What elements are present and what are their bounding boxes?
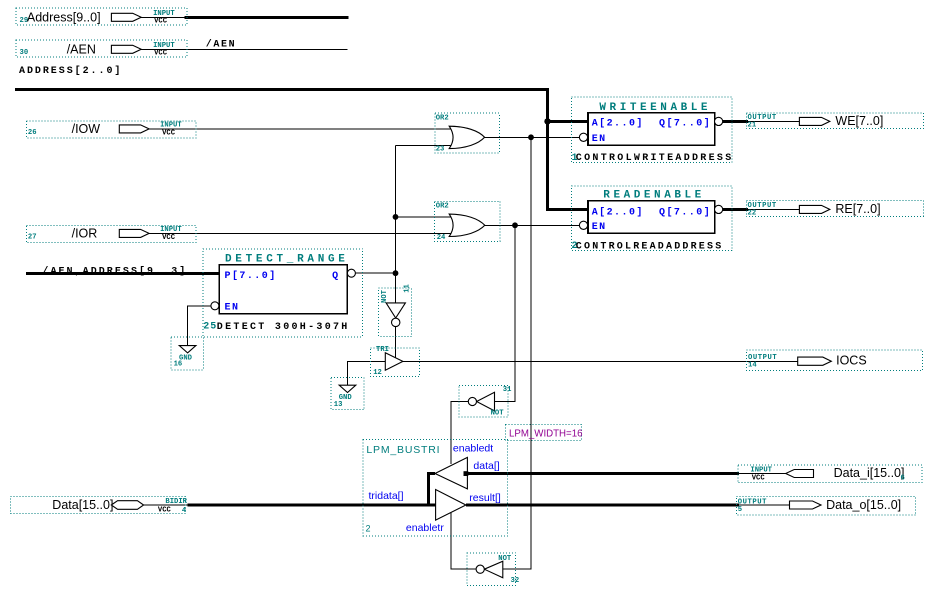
svg-text:READENABLE: READENABLE	[603, 190, 705, 202]
or-gate OR2 24	[434, 202, 500, 242]
svg-text:Data_i[15..0]: Data_i[15..0]	[834, 466, 905, 480]
svg-text:Data_o[15..0]: Data_o[15..0]	[826, 498, 901, 512]
wire WRITEENABLE Q to WE output pin	[723, 120, 800, 123]
svg-text:12: 12	[373, 369, 382, 377]
wire ADDRESS[2..0] bus	[15, 89, 588, 209]
wire LPM_BUSTRI internal bus	[429, 474, 435, 506]
svg-text:5: 5	[738, 506, 742, 514]
block LPM_BUSTRI 2	[363, 440, 507, 536]
wire data[] bus to Data_i pin	[465, 472, 786, 475]
wire TRI12 output to IOCS pin	[403, 360, 798, 362]
svg-text:EN: EN	[592, 134, 607, 145]
svg-text:data[]: data[]	[473, 460, 499, 472]
wire result[] bus to Data_o pin	[466, 504, 790, 507]
svg-text:4: 4	[182, 507, 187, 515]
wire Address[9..0] bus	[141, 16, 349, 18]
junction OR23 output	[528, 134, 534, 140]
svg-text:Q[7..0]: Q[7..0]	[659, 118, 711, 130]
svg-text:27: 27	[28, 234, 37, 242]
svg-text:23: 23	[436, 146, 445, 154]
svg-text:30: 30	[20, 49, 29, 57]
svg-text:16: 16	[174, 361, 183, 369]
svg-text:P[7..0]: P[7..0]	[225, 270, 277, 282]
wire READENABLE Q to RE output pin	[723, 208, 800, 211]
wire OR23 output to WRITEENABLE EN and down to NOT32 input	[485, 137, 580, 569]
junction Q net at OR24 branch	[393, 214, 399, 220]
svg-text:32: 32	[511, 577, 520, 585]
svg-text:BIDIR: BIDIR	[165, 498, 187, 506]
svg-text:13: 13	[334, 401, 343, 409]
wire P[7..0] input bus to DETECT_RANGE	[26, 272, 220, 275]
inverter NOT31	[459, 386, 512, 418]
svg-text:INPUT: INPUT	[750, 466, 772, 474]
svg-text:WE[7..0]: WE[7..0]	[835, 114, 883, 128]
ground GND16	[171, 337, 203, 370]
wire /AEN net	[141, 48, 348, 50]
svg-text:LPM_BUSTRI: LPM_BUSTRI	[366, 444, 440, 456]
svg-text:Q: Q	[332, 271, 339, 282]
svg-text:2: 2	[366, 524, 371, 534]
svg-text:A[2..0]: A[2..0]	[592, 118, 644, 130]
svg-text:EN: EN	[225, 302, 240, 313]
svg-text:VCC: VCC	[162, 234, 176, 242]
inverter NOT11	[379, 283, 412, 336]
svg-text:Data[15..0]: Data[15..0]	[52, 498, 113, 512]
svg-text:TRI: TRI	[376, 346, 389, 354]
svg-text:25: 25	[203, 322, 217, 333]
wire NOT11 output to TRI12 enable	[395, 327, 397, 358]
svg-text:NOT: NOT	[491, 410, 505, 418]
svg-text:INPUT: INPUT	[160, 122, 182, 130]
svg-text:ADDRESS[2..0]: ADDRESS[2..0]	[19, 65, 122, 77]
parameter LPM_WIDTH=16	[506, 424, 583, 440]
output pin 21 WE[7..0]	[746, 113, 923, 130]
wire Data[15..0] bidir bus to tridata	[144, 504, 436, 506]
svg-text:31: 31	[503, 386, 512, 394]
svg-text:24: 24	[437, 234, 446, 242]
svg-text:CONTROLREADADDRESS: CONTROLREADADDRESS	[576, 241, 724, 252]
wire GND13 to TRI12 input	[348, 361, 386, 385]
input pin 29 Address[9..0]	[16, 8, 187, 26]
svg-text:6: 6	[901, 475, 905, 483]
svg-text:/IOW: /IOW	[72, 122, 101, 136]
input pin 30 /AEN	[16, 40, 187, 58]
svg-text:/AEN: /AEN	[67, 42, 96, 56]
svg-text:VCC: VCC	[162, 130, 176, 138]
bidir pin 4 Data[15..0]	[11, 496, 188, 515]
svg-text:DETECT_RANGE: DETECT_RANGE	[225, 253, 349, 265]
svg-text:Q[7..0]: Q[7..0]	[659, 206, 711, 218]
block WRITEENABLE U1	[572, 97, 734, 164]
wire DETECT_RANGE EN to GND16	[187, 306, 210, 346]
svg-text:VCC: VCC	[158, 506, 172, 514]
svg-text:22: 22	[748, 210, 757, 218]
svg-text:enabletr: enabletr	[406, 522, 444, 534]
output pin 22 RE[7..0]	[746, 201, 923, 218]
svg-text:OUTPUT: OUTPUT	[738, 499, 767, 507]
svg-text:DETECT 300H-307H: DETECT 300H-307H	[217, 322, 350, 333]
svg-text:26: 26	[28, 129, 37, 137]
input pin 26 /IOW	[26, 121, 196, 138]
svg-text:LPM_WIDTH=16: LPM_WIDTH=16	[509, 428, 582, 439]
svg-text:tridata[]: tridata[]	[369, 490, 404, 502]
inverter NOT32	[467, 553, 519, 586]
svg-text:VCC: VCC	[154, 50, 168, 58]
svg-text:/IOR: /IOR	[72, 226, 98, 240]
tri-state buffer TRI12	[371, 346, 420, 377]
junction on ADDRESS bus at WRITEENABLE branch	[544, 118, 550, 124]
svg-text:/AEN,ADDRESS[9..3]: /AEN,ADDRESS[9..3]	[42, 265, 187, 277]
ground GND13	[331, 377, 364, 409]
svg-text:OR2: OR2	[436, 202, 449, 210]
output pin 14 IOCS	[746, 350, 922, 370]
svg-text:INPUT: INPUT	[160, 226, 182, 234]
svg-text:OR2: OR2	[436, 114, 449, 122]
input pin 27 /IOR	[26, 226, 196, 243]
svg-text:NOT: NOT	[498, 555, 512, 563]
wire NOT31 output to enabledt	[451, 402, 468, 465]
svg-text:A[2..0]: A[2..0]	[592, 206, 644, 218]
svg-text:14: 14	[748, 362, 757, 370]
output pin 5 Data_o[15..0]	[737, 496, 916, 515]
svg-text:NOT: NOT	[381, 289, 389, 303]
wire DETECT_RANGE Q net to OR gates and NOT11	[356, 145, 453, 303]
input pin 6 Data_i[15..0]	[738, 465, 922, 483]
junction OR24 output	[512, 222, 518, 228]
wire /IOR net	[149, 232, 452, 234]
svg-text:EN: EN	[592, 222, 607, 233]
or-gate OR2 23	[435, 113, 499, 153]
svg-text:result[]: result[]	[469, 492, 501, 504]
wire /IOW net	[149, 128, 452, 130]
svg-text:IOCS: IOCS	[836, 354, 867, 368]
svg-text:enabledt: enabledt	[453, 442, 493, 454]
svg-text:VCC: VCC	[154, 18, 168, 26]
svg-text:Address[9..0]: Address[9..0]	[27, 10, 101, 24]
wire NOT32 output to enabletr	[451, 512, 476, 569]
block READENABLE U2	[572, 186, 733, 253]
junction Q net at NOT11 branch	[393, 270, 399, 276]
svg-text:21: 21	[748, 122, 757, 130]
block DETECT_RANGE U25	[203, 249, 363, 337]
svg-text:VCC: VCC	[752, 475, 766, 483]
wire OR24 output to READENABLE EN and down to NOT31 input	[485, 225, 580, 401]
svg-text:11: 11	[403, 283, 411, 292]
svg-text:RE[7..0]: RE[7..0]	[835, 202, 880, 216]
svg-text:CONTROLWRITEADDRESS: CONTROLWRITEADDRESS	[576, 153, 734, 164]
svg-text:/AEN: /AEN	[206, 38, 236, 50]
